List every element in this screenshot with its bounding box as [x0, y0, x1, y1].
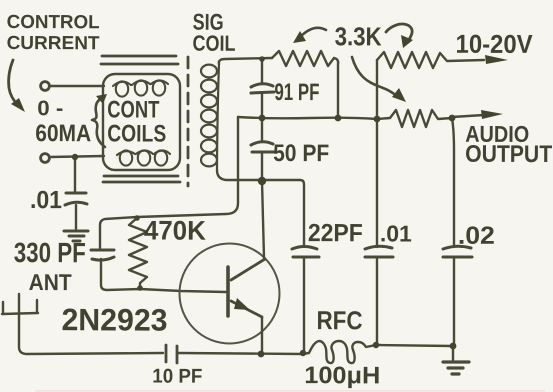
svg-text:.01: .01	[30, 186, 62, 214]
svg-text:91 PF: 91 PF	[274, 79, 319, 106]
svg-text:RFC: RFC	[316, 305, 362, 335]
svg-text:60MA: 60MA	[35, 120, 91, 147]
svg-text:3.3K: 3.3K	[335, 21, 382, 51]
svg-text:CONTROL: CONTROL	[7, 12, 100, 33]
svg-text:COIL: COIL	[193, 31, 236, 56]
svg-text:.02: .02	[458, 222, 495, 250]
svg-text:2N2923: 2N2923	[61, 302, 167, 337]
svg-text:50 PF: 50 PF	[273, 140, 329, 167]
svg-text:470K: 470K	[144, 215, 207, 245]
svg-text:OUTPUT: OUTPUT	[465, 141, 552, 168]
svg-text:0 -: 0 -	[37, 97, 63, 120]
svg-text:CURRENT: CURRENT	[7, 33, 100, 54]
svg-text:330 PF: 330 PF	[14, 237, 86, 268]
svg-text:10 PF: 10 PF	[152, 366, 202, 388]
svg-text:10-20V: 10-20V	[456, 29, 534, 59]
svg-text:22PF: 22PF	[308, 219, 363, 247]
svg-text:COILS: COILS	[107, 120, 166, 147]
svg-text:ANT: ANT	[29, 269, 72, 295]
svg-text:.01: .01	[380, 220, 412, 246]
svg-text:100μH: 100μH	[304, 362, 380, 389]
